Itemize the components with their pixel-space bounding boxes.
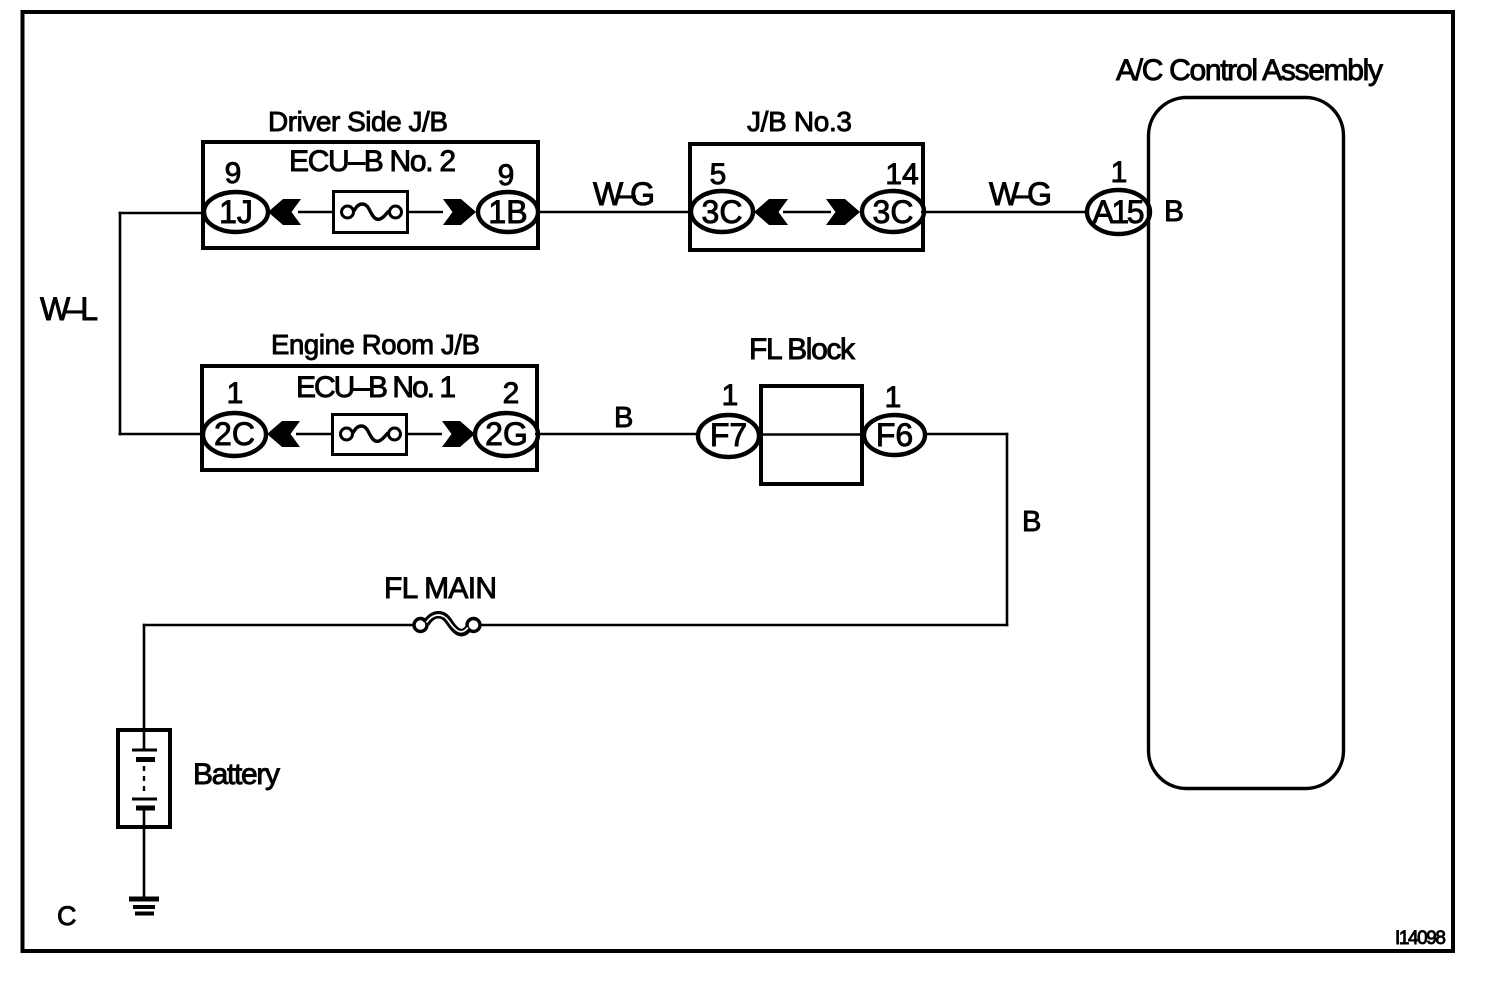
svg-text:3C: 3C (702, 194, 743, 230)
arrow right (2G) (442, 421, 475, 447)
svg-text:ECU–B No. 1: ECU–B No. 1 (296, 371, 456, 404)
svg-text:2G: 2G (485, 416, 528, 452)
wire 2G to F7, B (535, 433, 701, 435)
svg-text:W–L: W–L (40, 291, 98, 327)
wire FL MAIN to corner (480, 624, 1008, 627)
wire 1B to 3C, W-G (537, 211, 692, 213)
svg-text:W–G: W–G (989, 176, 1052, 212)
wire 1J arrow to fuse (298, 211, 334, 213)
svg-text:Engine Room J/B: Engine Room J/B (271, 329, 480, 360)
svg-text:W–G: W–G (593, 176, 655, 212)
svg-text:Driver Side J/B: Driver Side J/B (268, 106, 448, 137)
svg-text:J/B No.3: J/B No.3 (747, 106, 852, 137)
svg-text:A/C Control Assembly: A/C Control Assembly (1116, 54, 1383, 87)
svg-text:1: 1 (722, 379, 739, 412)
wire battery to ground (143, 808, 146, 897)
svg-text:FL MAIN: FL MAIN (384, 572, 497, 605)
svg-text:3C: 3C (873, 194, 914, 230)
svg-text:B: B (1022, 506, 1041, 538)
svg-text:14: 14 (885, 158, 918, 191)
wire F6 right (923, 433, 1008, 435)
connector F6 (864, 415, 925, 455)
svg-text:Battery: Battery (193, 758, 280, 791)
wire fuse to right arrow (406, 433, 442, 435)
wire between arrows (783, 211, 831, 213)
svg-text:1: 1 (1111, 156, 1128, 189)
fuse ECU-B No.2 (334, 192, 408, 233)
fuse ECU-B No.1 (333, 415, 407, 455)
arrow left (1J) (268, 199, 301, 225)
connector 2G (475, 413, 538, 456)
connector 1B (478, 192, 538, 232)
svg-text:C: C (57, 901, 77, 931)
battery box (118, 730, 170, 827)
FL Block box (761, 386, 862, 484)
svg-text:ECU–B No. 2: ECU–B No. 2 (289, 145, 456, 178)
junction block Engine Room J/B (202, 366, 537, 470)
connector 3C right (862, 191, 924, 232)
wire through FL block (758, 433, 865, 436)
ECU A/C Control Assembly outline (1149, 98, 1344, 789)
battery cell 2 long plate (132, 798, 157, 801)
svg-text:A15: A15 (1093, 194, 1145, 230)
wire down from F6 corner (1006, 433, 1009, 627)
battery cell 2 short plate (136, 806, 155, 811)
svg-text:FL Block: FL Block (749, 333, 856, 366)
svg-text:9: 9 (498, 159, 515, 192)
junction block J/B No.3 (690, 144, 923, 250)
battery cell 1 short plate (136, 757, 155, 762)
connector A15 (1087, 190, 1150, 234)
wire W-L horizontal top from node to 1J (119, 212, 206, 215)
ground (129, 899, 159, 914)
svg-text:F6: F6 (876, 417, 913, 453)
svg-text:1B: 1B (488, 194, 527, 230)
arrow right (1B) (443, 199, 476, 225)
svg-text:5: 5 (710, 158, 727, 191)
battery cell 1 long plate (132, 749, 157, 752)
wire 2C arrow to fuse (296, 433, 333, 435)
wire battery to FL MAIN (143, 624, 414, 627)
svg-text:2C: 2C (214, 416, 255, 452)
svg-text:B: B (614, 402, 633, 434)
svg-text:1: 1 (227, 377, 244, 410)
svg-text:F7: F7 (710, 417, 747, 453)
wire fuse to right arrow (407, 211, 443, 213)
svg-text:1J: 1J (219, 194, 253, 230)
svg-text:9: 9 (225, 157, 242, 190)
connector F7 (698, 415, 759, 457)
arrow right (3C) (826, 199, 860, 225)
fusible link FL MAIN (414, 615, 480, 633)
battery dashed link (143, 766, 145, 792)
connector 2C (203, 413, 266, 456)
wire W-L horizontal bottom to 2C (119, 433, 206, 436)
svg-text:1: 1 (885, 381, 902, 414)
arrow left (3C) (754, 199, 788, 225)
connector 3C left (691, 191, 753, 232)
wire W-L vertical (119, 212, 122, 436)
wire down to battery (143, 624, 146, 750)
svg-text:2: 2 (503, 377, 520, 410)
svg-text:B: B (1164, 195, 1184, 228)
wire 3C to A15, W-G (921, 211, 1090, 213)
connector 1J (204, 192, 268, 232)
svg-text:I14098: I14098 (1395, 928, 1446, 949)
arrow left (2C) (267, 421, 300, 447)
junction block Driver Side J/B (203, 142, 538, 248)
